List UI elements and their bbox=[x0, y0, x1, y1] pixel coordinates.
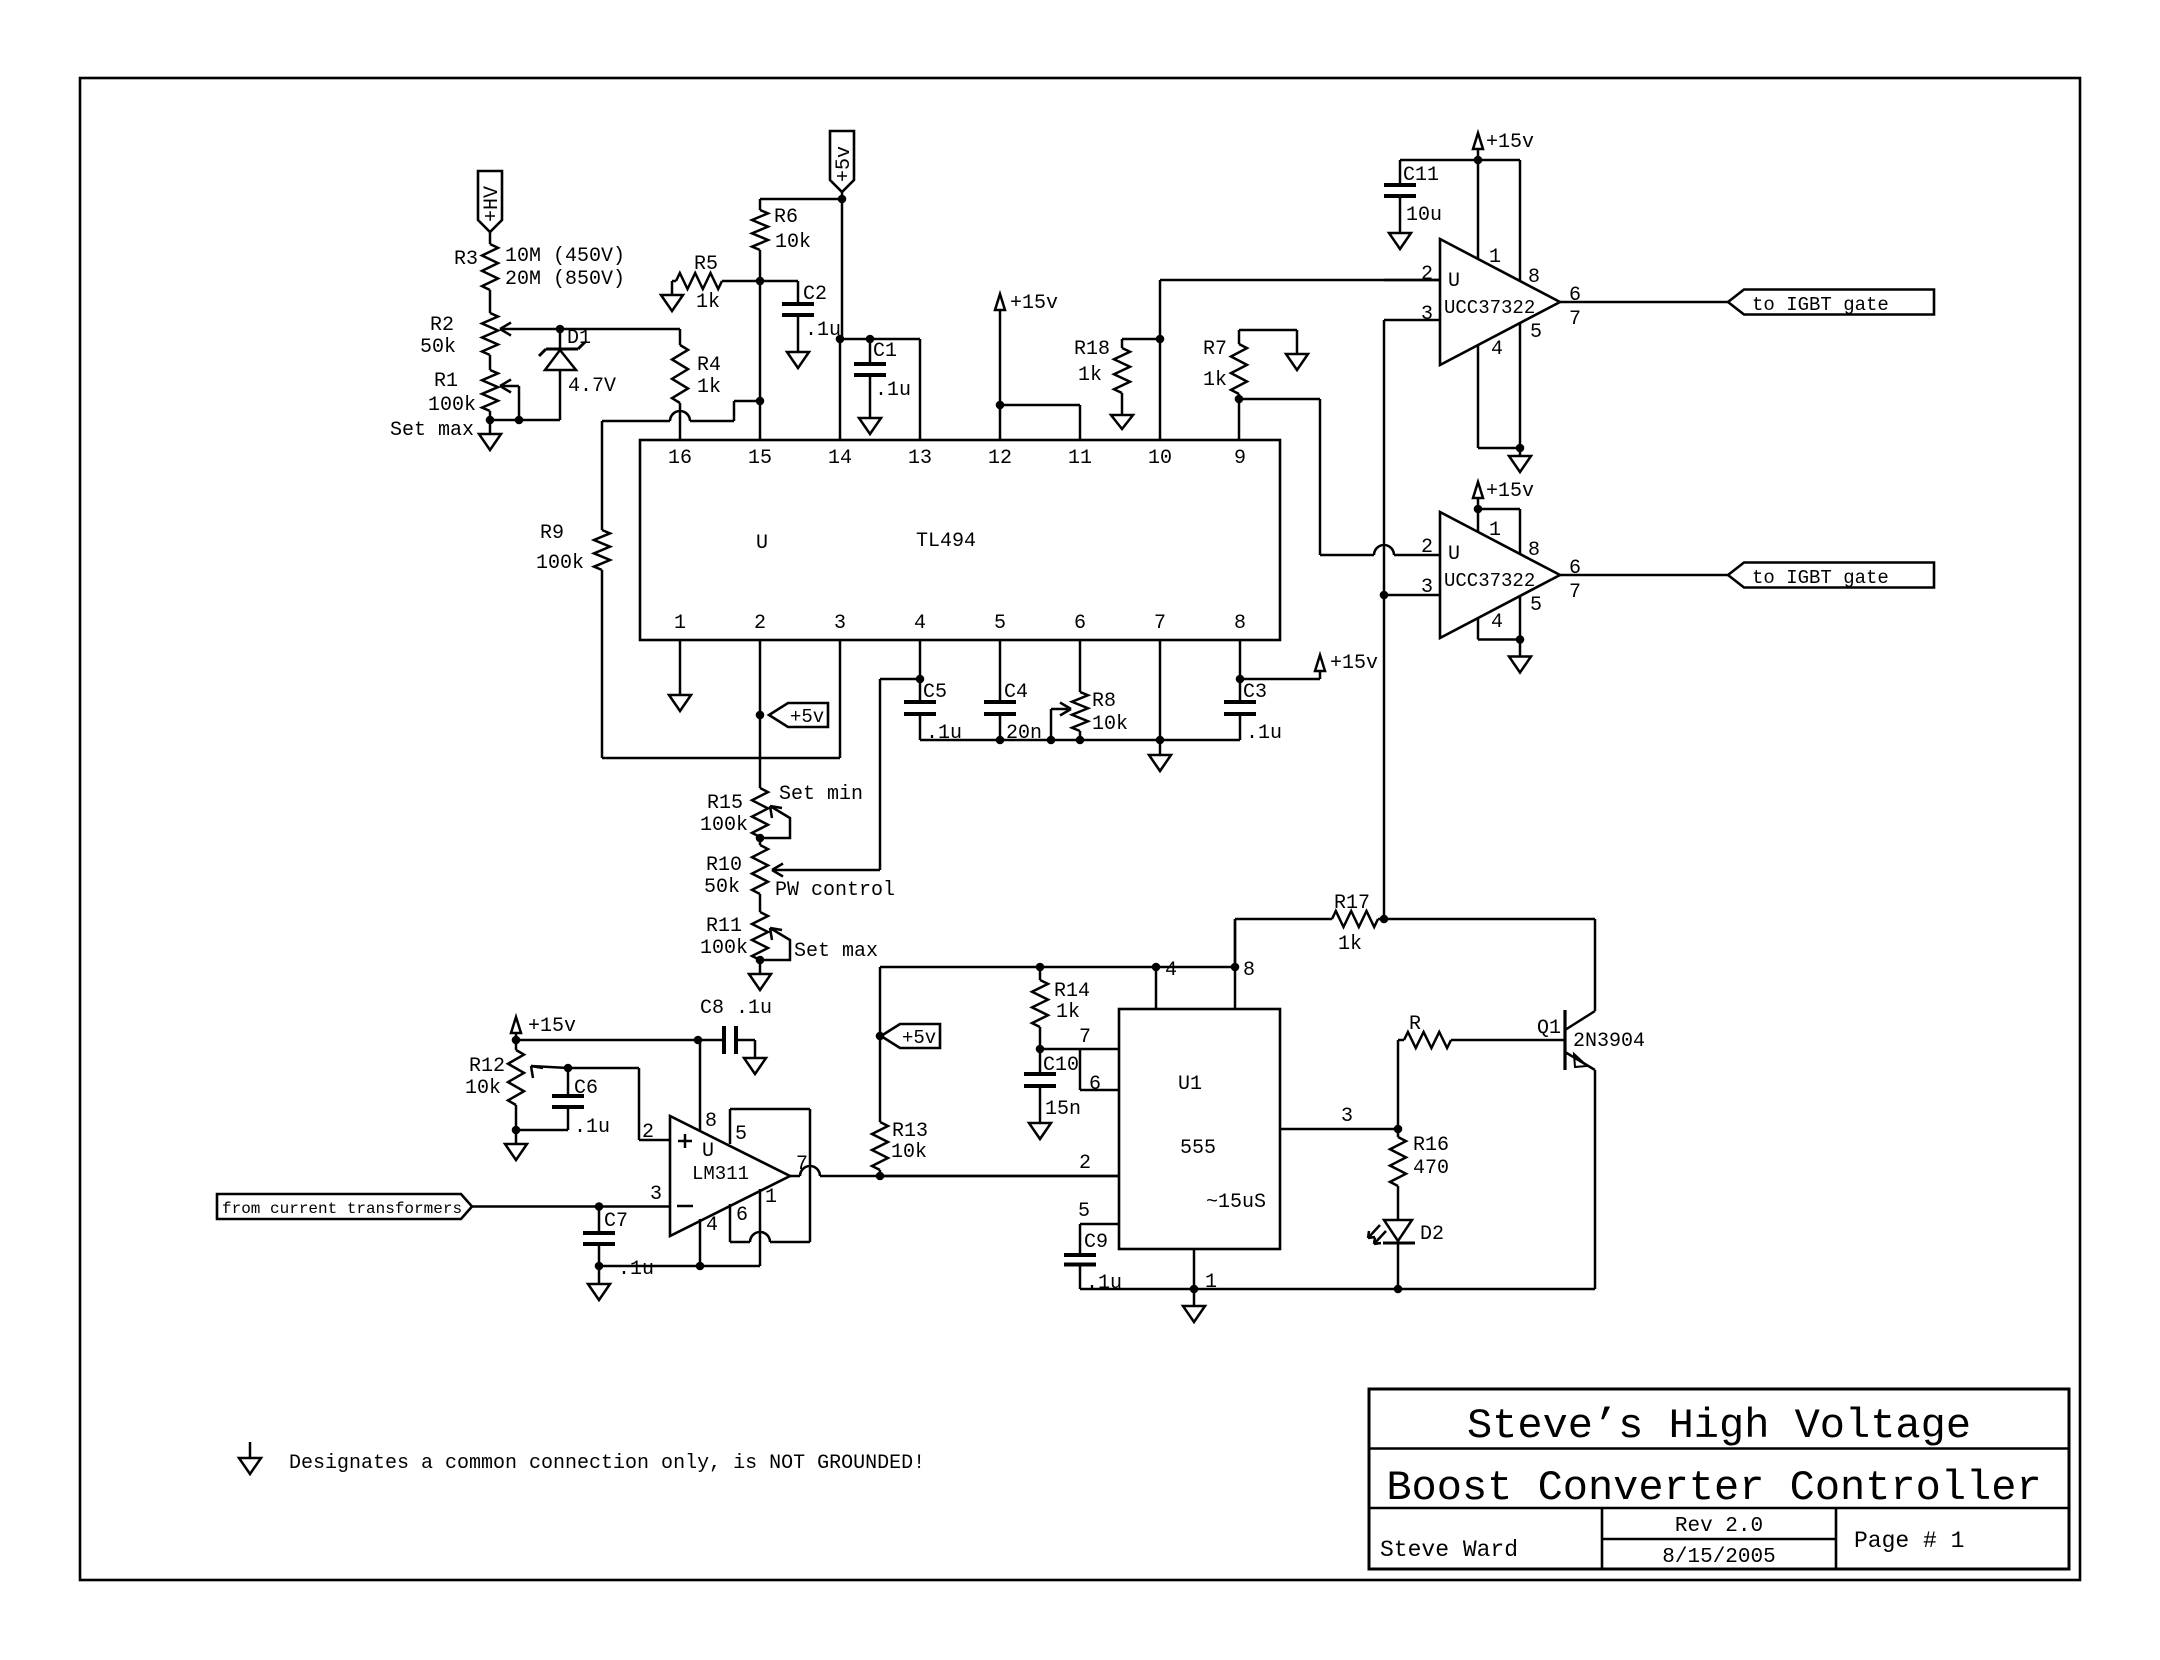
svg-text:1k: 1k bbox=[697, 376, 721, 399]
svg-text:10k: 10k bbox=[775, 231, 811, 254]
svg-text:to IGBT gate: to IGBT gate bbox=[1752, 294, 1889, 316]
svg-text:Q1: Q1 bbox=[1537, 1017, 1561, 1040]
svg-text:C5: C5 bbox=[923, 681, 947, 704]
svg-text:R16: R16 bbox=[1413, 1134, 1449, 1157]
svg-text:C11: C11 bbox=[1403, 164, 1439, 187]
svg-text:16: 16 bbox=[668, 447, 692, 470]
svg-text:R13: R13 bbox=[892, 1120, 928, 1143]
svg-text:R2: R2 bbox=[430, 314, 454, 337]
svg-text:R1: R1 bbox=[434, 370, 458, 393]
svg-text:Designates a common connection: Designates a common connection only, is … bbox=[289, 1452, 925, 1475]
svg-text:+5v: +5v bbox=[902, 1027, 936, 1049]
svg-text:1: 1 bbox=[765, 1186, 777, 1209]
svg-text:10k: 10k bbox=[1092, 713, 1128, 736]
svg-text:8/15/2005: 8/15/2005 bbox=[1662, 1546, 1775, 1569]
svg-text:4: 4 bbox=[914, 612, 926, 635]
svg-text:R18: R18 bbox=[1074, 338, 1110, 361]
svg-text:2: 2 bbox=[754, 612, 766, 635]
svg-text:4: 4 bbox=[706, 1214, 718, 1237]
svg-text:UCC37322: UCC37322 bbox=[1444, 297, 1535, 319]
svg-text:PW control: PW control bbox=[775, 879, 895, 902]
svg-text:15n: 15n bbox=[1045, 1098, 1081, 1121]
svg-text:2: 2 bbox=[1421, 536, 1433, 559]
svg-text:C10: C10 bbox=[1043, 1054, 1079, 1077]
svg-text:8: 8 bbox=[705, 1110, 717, 1133]
svg-text:100k: 100k bbox=[700, 937, 748, 960]
svg-text:6: 6 bbox=[1569, 284, 1581, 307]
svg-text:2: 2 bbox=[1421, 263, 1433, 286]
svg-text:100k: 100k bbox=[700, 814, 748, 837]
svg-text:11: 11 bbox=[1068, 447, 1092, 470]
svg-text:8: 8 bbox=[1234, 612, 1246, 635]
svg-text:Set max: Set max bbox=[794, 940, 878, 963]
svg-text:10u: 10u bbox=[1406, 204, 1442, 227]
svg-text:4.7V: 4.7V bbox=[568, 375, 616, 398]
svg-text:+5v: +5v bbox=[790, 706, 824, 728]
svg-text:.1u: .1u bbox=[618, 1258, 654, 1281]
svg-text:U: U bbox=[702, 1140, 714, 1163]
svg-text:4: 4 bbox=[1491, 338, 1503, 361]
svg-text:R17: R17 bbox=[1334, 892, 1370, 915]
svg-text:U: U bbox=[756, 532, 768, 555]
svg-text:12: 12 bbox=[988, 447, 1012, 470]
svg-text:R9: R9 bbox=[540, 522, 564, 545]
svg-text:10: 10 bbox=[1148, 447, 1172, 470]
svg-text:8: 8 bbox=[1528, 539, 1540, 562]
svg-text:2: 2 bbox=[642, 1121, 654, 1144]
svg-text:.1u: .1u bbox=[926, 722, 962, 745]
svg-text:100k: 100k bbox=[536, 552, 584, 575]
svg-text:1: 1 bbox=[1489, 519, 1501, 542]
svg-text:5: 5 bbox=[994, 612, 1006, 635]
svg-text:R12: R12 bbox=[469, 1055, 505, 1078]
svg-text:R4: R4 bbox=[697, 354, 721, 377]
svg-text:.1u: .1u bbox=[805, 319, 841, 342]
svg-text:3: 3 bbox=[1421, 303, 1433, 326]
svg-text:R7: R7 bbox=[1203, 338, 1227, 361]
svg-text:Boost Converter Controller: Boost Converter Controller bbox=[1386, 1464, 2041, 1512]
svg-text:3: 3 bbox=[1341, 1105, 1353, 1128]
svg-text:C2: C2 bbox=[803, 283, 827, 306]
svg-text:U1: U1 bbox=[1178, 1073, 1202, 1096]
svg-text:+15v: +15v bbox=[528, 1015, 576, 1038]
svg-text:.1u: .1u bbox=[1086, 1272, 1122, 1295]
svg-text:C3: C3 bbox=[1243, 681, 1267, 704]
svg-text:10k: 10k bbox=[465, 1077, 501, 1100]
svg-text:C1: C1 bbox=[873, 340, 897, 363]
svg-text:C7: C7 bbox=[604, 1210, 628, 1233]
svg-text:5: 5 bbox=[1078, 1200, 1090, 1223]
svg-text:Set min: Set min bbox=[779, 783, 863, 806]
svg-text:8: 8 bbox=[1528, 266, 1540, 289]
svg-text:6: 6 bbox=[1569, 557, 1581, 580]
svg-text:.1u: .1u bbox=[1246, 722, 1282, 745]
svg-text:1k: 1k bbox=[1203, 369, 1227, 392]
svg-text:6: 6 bbox=[1074, 612, 1086, 635]
svg-text:Steve Ward: Steve Ward bbox=[1380, 1537, 1518, 1563]
svg-text:6: 6 bbox=[736, 1204, 748, 1227]
svg-text:+15v: +15v bbox=[1486, 480, 1534, 503]
svg-text:R14: R14 bbox=[1054, 980, 1090, 1003]
svg-text:U: U bbox=[1448, 270, 1460, 293]
svg-text:Page # 1: Page # 1 bbox=[1854, 1528, 1964, 1554]
svg-text:+5v: +5v bbox=[833, 146, 856, 182]
svg-text:Set max: Set max bbox=[390, 419, 474, 442]
svg-text:100k: 100k bbox=[428, 394, 476, 417]
svg-text:C6: C6 bbox=[574, 1077, 598, 1100]
svg-text:LM311: LM311 bbox=[692, 1163, 749, 1185]
svg-text:D2: D2 bbox=[1420, 1223, 1444, 1246]
svg-text:4: 4 bbox=[1165, 959, 1177, 982]
svg-text:UCC37322: UCC37322 bbox=[1444, 570, 1535, 592]
svg-text:+HV: +HV bbox=[481, 186, 504, 222]
svg-text:+15v: +15v bbox=[1486, 131, 1534, 154]
svg-text:2N3904: 2N3904 bbox=[1573, 1030, 1645, 1053]
svg-text:.1u: .1u bbox=[875, 379, 911, 402]
svg-text:14: 14 bbox=[828, 447, 852, 470]
svg-text:470: 470 bbox=[1413, 1157, 1449, 1180]
svg-text:50k: 50k bbox=[420, 336, 456, 359]
svg-text:50k: 50k bbox=[704, 876, 740, 899]
svg-text:6: 6 bbox=[1089, 1073, 1101, 1096]
svg-text:R5: R5 bbox=[694, 253, 718, 276]
svg-text:4: 4 bbox=[1491, 611, 1503, 634]
svg-text:R6: R6 bbox=[774, 206, 798, 229]
svg-text:3: 3 bbox=[834, 612, 846, 635]
svg-text:7: 7 bbox=[1569, 581, 1581, 604]
svg-text:1: 1 bbox=[1489, 246, 1501, 269]
svg-text:555: 555 bbox=[1180, 1137, 1216, 1160]
svg-text:20M (850V): 20M (850V) bbox=[505, 268, 625, 291]
svg-text:R3: R3 bbox=[454, 248, 478, 271]
svg-text:7: 7 bbox=[1154, 612, 1166, 635]
svg-text:Rev 2.0: Rev 2.0 bbox=[1675, 1515, 1763, 1538]
svg-text:7: 7 bbox=[1569, 308, 1581, 331]
svg-text:1k: 1k bbox=[1338, 933, 1362, 956]
svg-text:Steve’s High Voltage: Steve’s High Voltage bbox=[1467, 1402, 1971, 1450]
svg-text:to IGBT gate: to IGBT gate bbox=[1752, 567, 1889, 589]
svg-text:1k: 1k bbox=[1056, 1001, 1080, 1024]
svg-text:5: 5 bbox=[1530, 321, 1542, 344]
svg-text:3: 3 bbox=[650, 1183, 662, 1206]
svg-text:7: 7 bbox=[1079, 1026, 1091, 1049]
svg-text:R8: R8 bbox=[1092, 690, 1116, 713]
svg-text:15: 15 bbox=[748, 447, 772, 470]
svg-text:C8 .1u: C8 .1u bbox=[700, 997, 772, 1020]
svg-text:9: 9 bbox=[1234, 447, 1246, 470]
svg-text:2: 2 bbox=[1079, 1152, 1091, 1175]
svg-text:7: 7 bbox=[796, 1153, 808, 1176]
svg-text:C9: C9 bbox=[1084, 1231, 1108, 1254]
svg-text:8: 8 bbox=[1243, 959, 1255, 982]
svg-text:TL494: TL494 bbox=[916, 530, 976, 553]
svg-text:~15uS: ~15uS bbox=[1206, 1191, 1266, 1214]
svg-text:R10: R10 bbox=[706, 854, 742, 877]
svg-text:13: 13 bbox=[908, 447, 932, 470]
svg-text:.1u: .1u bbox=[574, 1116, 610, 1139]
svg-text:20n: 20n bbox=[1006, 722, 1042, 745]
svg-text:R11: R11 bbox=[706, 915, 742, 938]
svg-text:R15: R15 bbox=[707, 792, 743, 815]
svg-text:1k: 1k bbox=[1078, 364, 1102, 387]
svg-text:5: 5 bbox=[1530, 594, 1542, 617]
svg-text:R: R bbox=[1409, 1013, 1421, 1036]
svg-text:10k: 10k bbox=[891, 1141, 927, 1164]
svg-text:+15v: +15v bbox=[1010, 292, 1058, 315]
svg-text:from current transformers: from current transformers bbox=[222, 1200, 462, 1218]
svg-text:1k: 1k bbox=[696, 291, 720, 314]
svg-text:1: 1 bbox=[674, 612, 686, 635]
svg-text:1: 1 bbox=[1205, 1271, 1217, 1294]
svg-text:5: 5 bbox=[735, 1123, 747, 1146]
svg-text:U: U bbox=[1448, 543, 1460, 566]
svg-text:D1: D1 bbox=[567, 327, 591, 350]
svg-text:+15v: +15v bbox=[1330, 652, 1378, 675]
svg-text:C4: C4 bbox=[1004, 681, 1028, 704]
svg-text:10M (450V): 10M (450V) bbox=[505, 245, 625, 268]
